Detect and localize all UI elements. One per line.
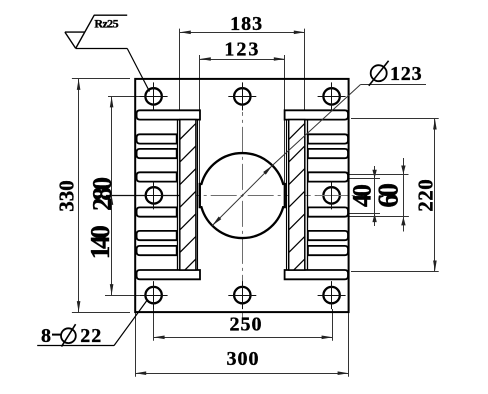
svg-text:60: 60 [373,184,404,208]
dimension 300 bottom [135,312,137,377]
right fin slats [285,110,348,119]
vertical centerline [242,112,244,319]
label diameter 123 [371,65,387,81]
dimension 250 bottom [153,309,155,341]
dimension 183 top [179,29,181,110]
svg-text:40: 40 [348,184,377,207]
hole 8 of 8-D22 [323,287,339,303]
hole 1 of 8-D22 [145,88,161,104]
right fin end line [307,120,309,270]
central bore circle D123 with notches [200,153,285,238]
svg-text:123: 123 [224,38,260,60]
hole 5 of 8-D22 [323,187,339,203]
svg-text:183: 183 [230,13,263,35]
svg-text:8: 8 [41,325,51,347]
dimension 280 and 140 left [108,96,140,98]
hole 4 of 8-D22 [146,187,162,203]
svg-text:280: 280 [87,177,117,211]
surface finish symbol Rz25 [94,14,127,16]
svg-text:250: 250 [230,313,263,335]
dimension 220 right [351,118,439,120]
svg-text:330: 330 [54,180,78,212]
svg-text:140: 140 [85,226,115,260]
dimension 123 top [199,55,201,184]
plate outline [135,79,348,312]
svg-text:Rz25: Rz25 [94,16,118,30]
hole 3 of 8-D22 [323,88,339,104]
hole 2 of 8-D22 [234,88,250,104]
dimension 40 right [348,178,380,180]
left inner double line [197,120,199,270]
dimension 330 left [72,78,130,80]
hole 7 of 8-D22 [234,287,250,303]
horizontal centerline [182,195,356,197]
dimension 60 right [348,174,408,176]
svg-text:123: 123 [390,63,422,85]
right inner double line [286,120,288,270]
diameter leader line [212,166,272,226]
svg-text:220: 220 [413,179,437,212]
svg-text:300: 300 [227,348,260,370]
svg-text:22: 22 [80,325,102,347]
left fin slats [137,110,200,119]
left fin end line [177,120,179,270]
hole 6 of 8-D22 [145,287,161,303]
